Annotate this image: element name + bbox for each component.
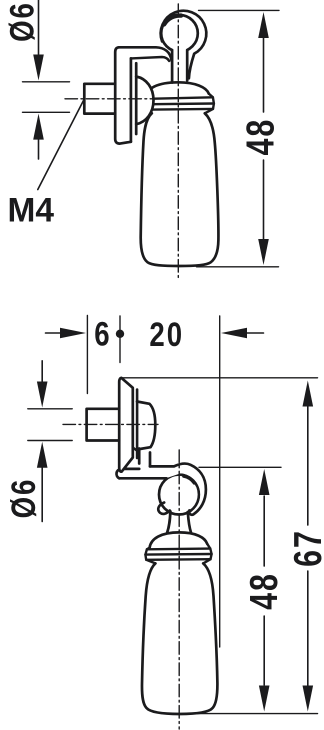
svg-text:20: 20 [149, 315, 184, 354]
dim Ø6 arrowhead down (top view) [33, 55, 44, 81]
dim 67 line [307, 405, 309, 525]
bracket arm top edge (top view) [119, 47, 172, 60]
dim ext line bottom [187, 713, 318, 715]
pendant cap ridge lines (top view) [143, 97, 213, 99]
dim Ø6 extension lines (top view) [23, 81, 70, 83]
pendant body (bottom view) [142, 563, 217, 714]
svg-text:48: 48 [242, 572, 285, 610]
ring crescent highlight (top view) [164, 16, 181, 25]
centerline vertical (top view) [177, 4, 179, 279]
dim 6/20 right arrowhead [221, 328, 247, 339]
bracket plate front edges (top view) [130, 58, 133, 141]
pendant body (top view) [141, 113, 219, 266]
bracket boss (top view) [130, 57, 154, 143]
dim ext line 48 top (bottom view) [199, 466, 281, 468]
ring outer rim arc (top view) [161, 11, 207, 79]
dim 48 line (top view) [263, 36, 265, 112]
pendant cap side profile (bottom view) [145, 548, 155, 564]
dim Ø6 arrow up-shaft (top view) [38, 0, 40, 55]
dim Ø6 arrowhead up (top view) [33, 114, 44, 140]
pendant cap dome (top view) [145, 82, 209, 98]
centerline stud axis (bottom view) [63, 423, 158, 425]
stud (bottom view) [87, 409, 120, 441]
dim ext line 20 right [219, 316, 221, 647]
dim 48 arrowhead down (top view) [258, 239, 269, 265]
ring end tail (bottom view) [158, 503, 170, 514]
pendant cap side profile (top view) [142, 98, 152, 113]
svg-text:Ø6: Ø6 [4, 478, 43, 519]
stud M4 (top view) [84, 84, 115, 114]
dim ext line wall face with dot [119, 316, 121, 363]
dim ext line 67 top [122, 377, 318, 379]
dim 6/20 left arrowhead [60, 328, 86, 339]
bracket neck (bottom view) [138, 449, 141, 464]
pendant shank (top view) [172, 48, 187, 83]
dim Ø6 arrows (bottom view) [41, 361, 43, 382]
svg-text:Ø6: Ø6 [3, 1, 42, 42]
dim 48 arrowhead up (top view) [258, 12, 269, 38]
pendant hanger loop (bottom view) [167, 508, 192, 533]
svg-text:67: 67 [286, 529, 324, 567]
pendant cap ridge lines (bottom view) [147, 547, 210, 550]
svg-text:48: 48 [239, 118, 282, 156]
M4 leader line [38, 100, 84, 190]
dim Ø6 ext lines (bottom view) [28, 408, 72, 410]
centerline vertical (bottom view) [178, 450, 180, 729]
dim 48 line (bottom view) [263, 496, 265, 566]
bracket plate outline (top view) [115, 47, 131, 143]
ring inner circle (top view) [161, 15, 198, 52]
dim Ø6 low shaft (top view) [38, 139, 40, 159]
ring circle (bottom view) [159, 475, 199, 515]
bracket rim line (bottom view) [136, 390, 139, 459]
centerline stud axis (top view) [65, 98, 158, 100]
dim 48 arrowheads (bottom view) [259, 469, 270, 495]
bracket boss (bottom view) [137, 402, 155, 450]
dim 48 extension lines (top view) [199, 9, 280, 11]
dim 67 arrowheads [303, 381, 314, 407]
dim ext line stud tip [86, 316, 88, 394]
pendant cap dome (bottom view) [150, 532, 208, 547]
dim 6/20 right arrow shaft [247, 332, 264, 334]
svg-text:6: 6 [94, 314, 109, 353]
svg-text:M4: M4 [8, 191, 55, 230]
dim 6/20 line left arrow shaft [46, 332, 62, 334]
hook strap (bottom view) [116, 463, 205, 514]
dim reference dot [116, 330, 124, 338]
bracket arm under edge (top view) [131, 57, 169, 61]
wall plate (bottom view) [119, 378, 133, 472]
